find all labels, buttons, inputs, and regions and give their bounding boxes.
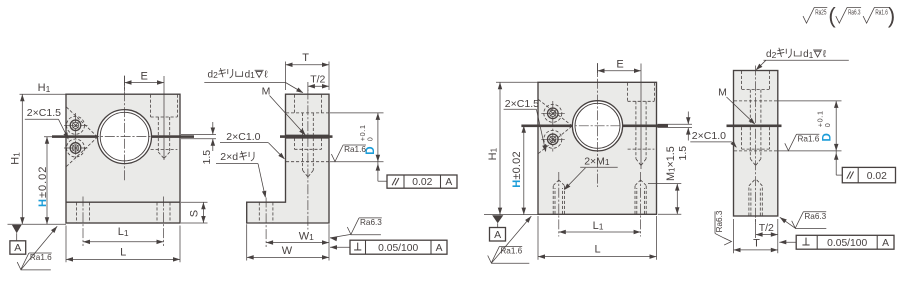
dimension T (right side view) — [733, 219, 735, 253]
left base mounting holes hidden lines — [76, 202, 78, 222]
right screw centerlines — [552, 101, 554, 152]
left front view clamp slit — [52, 135, 98, 138]
right side view block — [734, 71, 778, 217]
right bottom hole centerlines — [558, 172, 560, 237]
dimension L (right) — [537, 216, 539, 260]
left clamp screw lower — [70, 143, 81, 154]
svg-text:M: M — [718, 87, 727, 99]
svg-text:M1×1.5: M1×1.5 — [665, 146, 677, 181]
svg-text:Ra25: Ra25 — [815, 7, 826, 16]
dimension W (left side view) — [246, 224, 248, 260]
datum A symbol (left) — [12, 225, 22, 233]
svg-text:0.02: 0.02 — [867, 171, 887, 182]
right side view body thread hidden lines — [741, 127, 743, 149]
perpendicularity frame 0.05/100 A (left) — [330, 246, 350, 248]
left bore vertical centerline — [124, 76, 126, 182]
svg-text:L: L — [594, 244, 600, 256]
right side view clamp slit — [727, 125, 782, 128]
dimension H1 (right) — [496, 81, 538, 83]
svg-text:Ra1.6: Ra1.6 — [500, 247, 522, 256]
dimension 1.5 slit (right) — [658, 123, 693, 125]
svg-text:A: A — [445, 177, 452, 188]
svg-text:H±0.02: H±0.02 — [37, 166, 49, 207]
svg-text:T: T — [302, 52, 309, 64]
svg-text:2×d: 2×d — [220, 151, 238, 163]
right bore vertical centerline — [597, 63, 599, 187]
svg-text:Ra6.3: Ra6.3 — [715, 210, 724, 232]
dimension L1 (left) — [83, 241, 164, 243]
surface finish Ra6.3 rotated (right side view left) — [715, 210, 732, 245]
right clamp screw lower — [548, 134, 559, 145]
svg-text:(: ( — [828, 3, 836, 28]
svg-text:A: A — [436, 243, 443, 254]
dimension L (left) — [65, 226, 67, 263]
right screw counterbore dashed circles — [544, 104, 562, 122]
dimension H +-0.02 (right, blue H) — [523, 126, 525, 215]
dimension T (left side view) — [285, 62, 287, 91]
dimension H1 (left) — [20, 93, 67, 95]
dimension E (left) — [124, 76, 126, 91]
svg-text:Ra1.6: Ra1.6 — [875, 7, 887, 16]
right clamp screw upper — [548, 108, 559, 119]
right front view bore hole — [572, 101, 622, 151]
svg-text:A: A — [494, 229, 501, 241]
svg-text:T/2: T/2 — [759, 222, 774, 234]
svg-text:Ra1.6: Ra1.6 — [30, 253, 52, 262]
surface finish Ra1.6 leader (left bottom) — [21, 226, 57, 269]
left bore horizontal centerline — [89, 136, 160, 138]
svg-text:2×C1.0: 2×C1.0 — [226, 131, 260, 143]
svg-text:0: 0 — [365, 137, 374, 141]
left screw centerlines — [75, 113, 77, 161]
left front view bore hole — [98, 110, 152, 164]
svg-text:2×M1: 2×M1 — [584, 155, 610, 167]
left side view clamp slit — [280, 135, 333, 138]
datum A symbol (right) — [492, 215, 503, 223]
left side view cap block — [286, 94, 330, 135]
svg-text:H1: H1 — [10, 152, 22, 165]
surface finish Ra6.3 with leader (right side view) — [780, 217, 796, 228]
svg-text:): ) — [888, 3, 895, 28]
surface finish Ra1.6 on bore (left) — [331, 145, 343, 162]
left front view body block — [66, 94, 180, 223]
parallelism frame 0.02 (right) — [835, 151, 837, 175]
left side view base hole hidden lines — [258, 202, 260, 222]
surface finish Ra1.6 leader (right bottom) — [492, 216, 532, 263]
svg-text:0.02: 0.02 — [412, 177, 432, 188]
left front view base parting line — [66, 201, 180, 203]
right front view clamp slit — [521, 125, 572, 128]
svg-text:H±0.02: H±0.02 — [511, 151, 523, 188]
svg-text:Ra6.3: Ra6.3 — [848, 7, 860, 16]
svg-text:H1: H1 — [38, 82, 51, 94]
right side view vertical centerline — [755, 66, 757, 225]
left chamfer cone hidden lines — [66, 107, 96, 136]
left side view base hole centerline — [265, 198, 267, 248]
right side view cap hole hidden lines — [741, 71, 743, 90]
svg-text:d1: d1 — [245, 69, 256, 80]
dimension W1 (left side view) — [266, 242, 329, 244]
right bottom extension line — [484, 214, 538, 216]
right front clamp-bolt hole centerline — [640, 82, 642, 126]
left side view body thread hidden lines — [293, 138, 295, 149]
svg-text:2×C1.5: 2×C1.5 — [505, 98, 539, 110]
svg-text:Ra6.3: Ra6.3 — [804, 212, 826, 221]
svg-text:0: 0 — [823, 123, 832, 127]
right bore horizontal centerline — [563, 125, 630, 127]
svg-text:T: T — [753, 237, 760, 249]
svg-text:A: A — [14, 242, 21, 254]
svg-text:d2: d2 — [766, 49, 777, 60]
right front clamp-bolt hole hidden lines — [627, 83, 629, 102]
svg-text:1.5: 1.5 — [201, 150, 213, 165]
right front view body block — [538, 82, 657, 214]
svg-text:L1: L1 — [118, 226, 129, 238]
svg-text:E: E — [616, 58, 623, 70]
left side view vertical centerline — [307, 90, 309, 230]
left front clamp-bolt hole centerline — [163, 94, 165, 136]
right bottom tapped holes 2xM1 hidden lines — [552, 186, 554, 215]
left side view bore hidden lines — [286, 112, 329, 114]
svg-text:0.05/100: 0.05/100 — [378, 243, 418, 254]
svg-text:L: L — [120, 246, 126, 258]
dimension T/2 (right side view) — [755, 219, 757, 238]
svg-text:0.05/100: 0.05/100 — [827, 238, 867, 249]
svg-text:H1: H1 — [487, 147, 499, 160]
dimension M1x1.5 (right) — [648, 183, 681, 185]
svg-text:d1: d1 — [803, 49, 814, 60]
svg-text:S: S — [188, 210, 200, 217]
surface finish Ra6.3 with leader (left side view) — [330, 234, 351, 238]
svg-text:2×C1.0: 2×C1.0 — [692, 130, 726, 142]
left side view cap hole hidden lines — [293, 95, 295, 113]
dimension D +0.1/0 (left, blue D) — [330, 112, 384, 114]
dimension L1 (right) — [559, 231, 641, 233]
dimension S (left) — [181, 201, 208, 203]
left base hole centerlines — [82, 197, 84, 247]
dimension 1.5 slit (left) — [181, 134, 216, 136]
perpendicularity frame 0.05/100 A (right) — [779, 241, 796, 243]
general surface roughness note Ra25 (Ra6.3 Ra1.6) — [803, 7, 814, 23]
svg-text:T/2: T/2 — [310, 74, 325, 86]
svg-text:W: W — [282, 245, 293, 257]
svg-text:2×C1.5: 2×C1.5 — [27, 107, 61, 119]
svg-text:D: D — [822, 133, 834, 141]
svg-text:d2: d2 — [208, 69, 219, 80]
svg-text:Ra1.6: Ra1.6 — [344, 145, 366, 154]
svg-text:W1: W1 — [299, 230, 314, 242]
svg-text:Ra6.3: Ra6.3 — [360, 218, 382, 227]
dimension T/2 (left side view) — [307, 82, 309, 91]
left side view body L-shape — [247, 138, 329, 223]
left bottom extension line — [8, 223, 67, 225]
svg-text:D: D — [365, 146, 377, 154]
svg-text:A: A — [882, 238, 889, 249]
svg-text:E: E — [141, 70, 148, 82]
svg-text:Ra1.6: Ra1.6 — [798, 134, 820, 143]
right chamfer cone hidden lines — [538, 100, 571, 126]
svg-text:L1: L1 — [593, 220, 604, 232]
surface finish Ra1.6 on bore (right) — [785, 134, 797, 151]
dimension E (right) — [597, 64, 599, 76]
dimension D +0.1/0 (right, blue D) — [778, 100, 841, 102]
dimension H +-0.02 (left, blue H) — [44, 136, 62, 138]
svg-text:1.5: 1.5 — [677, 146, 689, 161]
left clamp screw upper — [70, 120, 81, 131]
right side view bore hidden lines — [734, 100, 777, 102]
parallelism frame 0.02 A (left) — [377, 162, 379, 182]
left front clamp-bolt hole hidden lines — [150, 95, 152, 117]
left screw counterbore dashed circles — [67, 116, 85, 134]
svg-text:M: M — [262, 85, 271, 97]
right side view bottom thread hidden lines — [748, 186, 750, 216]
